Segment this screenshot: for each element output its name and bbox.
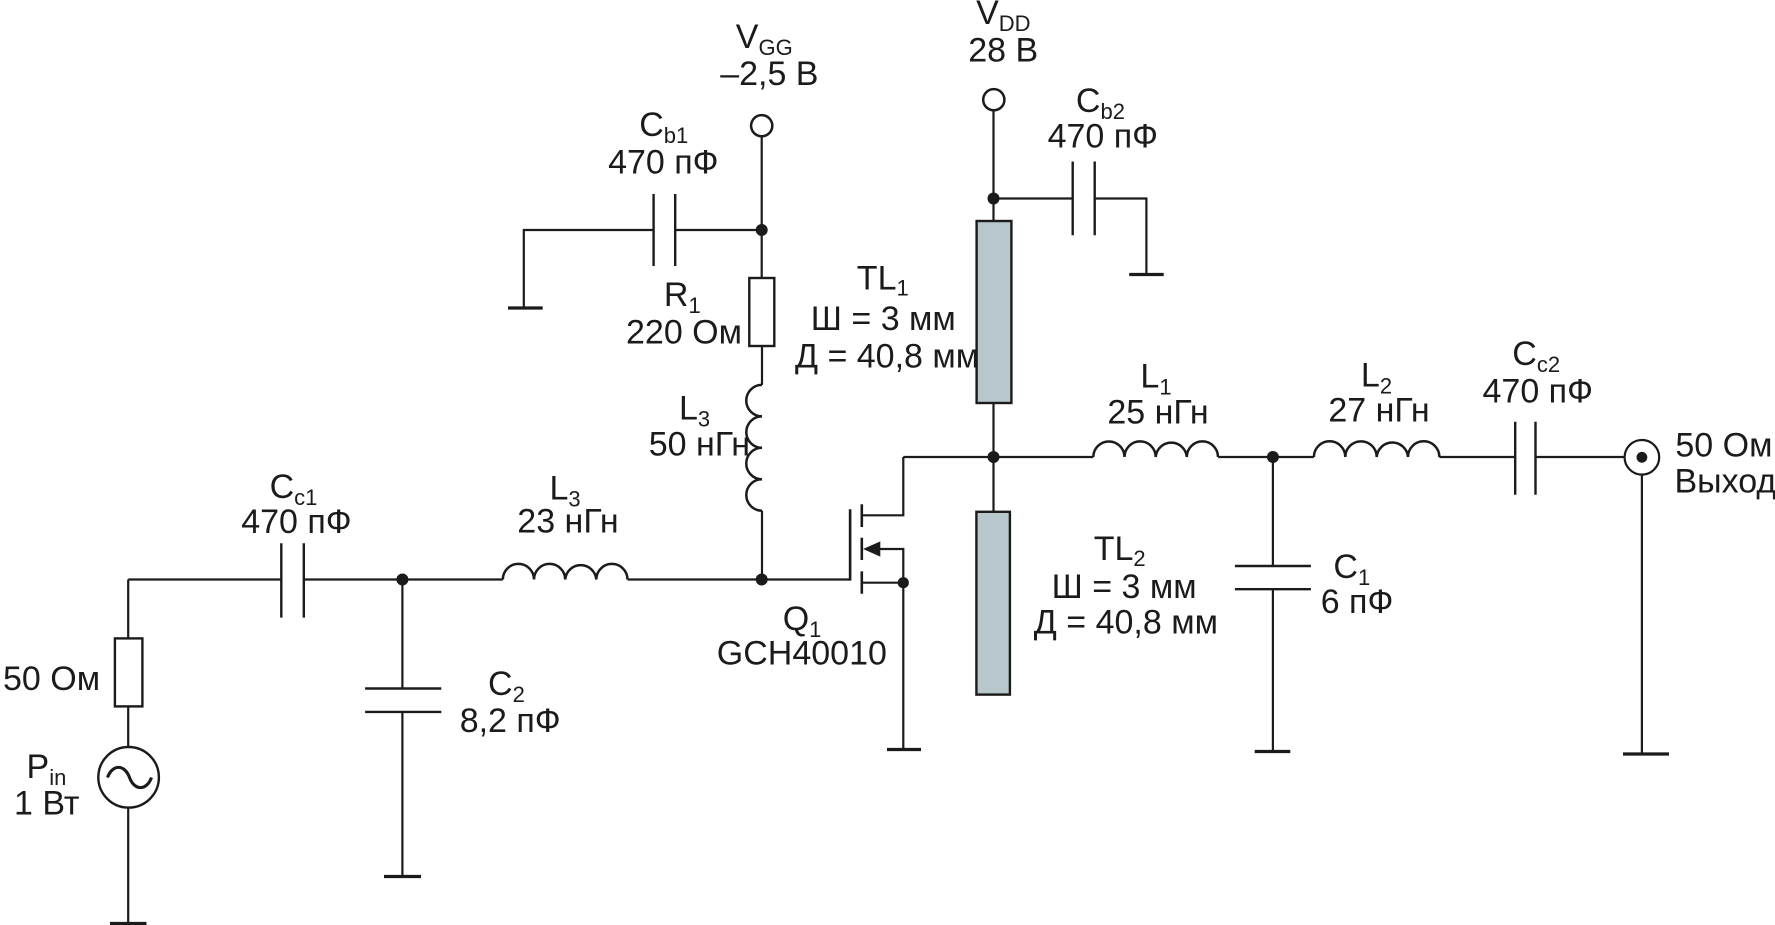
- transistor Q1 drain lead: [862, 457, 904, 515]
- wire input vertical: [127, 580, 129, 639]
- transistor Q1 channel segments: [860, 504, 863, 594]
- svg-text:TL1: TL1: [857, 259, 909, 300]
- wire source to ground: [902, 583, 904, 748]
- capacitor C2: [365, 687, 441, 689]
- ground (Q1 source): [887, 748, 921, 751]
- svg-text:Д = 40,8 мм: Д = 40,8 мм: [795, 338, 979, 376]
- svg-text:C2: C2: [488, 665, 525, 707]
- inductor L3 bias 50 нГн: [746, 385, 762, 511]
- node C junction: [1267, 451, 1279, 463]
- wire VDD node to terminal: [992, 110, 994, 198]
- node VDD junction: [988, 193, 1000, 205]
- wire TL1 to VDD node: [992, 199, 994, 222]
- svg-text:8,2 пФ: 8,2 пФ: [460, 702, 561, 740]
- inductor L1 25 нГн: [1093, 441, 1218, 457]
- wire VDD node to Cb2: [994, 197, 1073, 199]
- inductor L2 27 нГн: [1314, 441, 1440, 457]
- capacitor Cc1: [280, 543, 282, 617]
- ground (Cb1): [508, 306, 543, 309]
- wire bias node to Cb1: [675, 229, 762, 231]
- node A junction: [396, 574, 408, 586]
- svg-text:–2,5 В: –2,5 В: [720, 55, 818, 93]
- terminal VGG: [751, 115, 772, 136]
- wire source to ground: [127, 808, 129, 922]
- wire L1 to node C: [1218, 456, 1273, 458]
- terminal VDD: [983, 89, 1004, 110]
- svg-text:Cc2: Cc2: [1512, 335, 1560, 377]
- source Pin (AC source): [98, 747, 159, 808]
- transmission line TL1: [977, 221, 1012, 403]
- wire bias node to VGG terminal: [761, 137, 763, 231]
- node gate junction: [756, 574, 768, 586]
- wire Cc2 to output terminal: [1536, 456, 1625, 458]
- ground (Cb2): [1129, 273, 1164, 276]
- wire node A to L3 series: [402, 578, 502, 580]
- transmission line TL2 (open stub): [976, 512, 1010, 695]
- wire L2 to Cc2: [1439, 456, 1515, 458]
- svg-text:6 пФ: 6 пФ: [1321, 583, 1394, 621]
- svg-text:50 нГн: 50 нГн: [649, 426, 750, 464]
- svg-text:1 Вт: 1 Вт: [14, 785, 79, 823]
- transistor Q1 gate bar: [849, 509, 852, 580]
- transistor Q1 source lead: [862, 582, 904, 584]
- node bias junction: [756, 224, 768, 236]
- wire R1 to bias node: [761, 230, 763, 278]
- svg-text:Ш = 3 мм: Ш = 3 мм: [811, 300, 956, 338]
- wire drain to node B: [903, 456, 993, 458]
- wire Cb2 to ground: [1095, 199, 1147, 274]
- ground (C2): [384, 875, 421, 878]
- wire output to ground: [1641, 475, 1643, 753]
- resistor 50 Ом (source impedance): [115, 638, 142, 706]
- terminal output connector: [1625, 440, 1660, 475]
- wire node B down to TL2: [992, 457, 994, 512]
- wire L3 to gate node: [628, 578, 762, 580]
- wire Cc1 to node A: [304, 578, 403, 580]
- wire node A down to C2: [401, 580, 403, 689]
- wire gate node to Q1 gate: [762, 578, 850, 580]
- svg-text:VGG: VGG: [736, 18, 793, 60]
- svg-text:25 нГн: 25 нГн: [1107, 394, 1208, 432]
- node source junction: [898, 577, 909, 588]
- wire C1 to ground: [1272, 589, 1274, 750]
- ground (C1): [1255, 750, 1291, 753]
- wire gate node up to L3 bias: [761, 511, 763, 580]
- capacitor Cc2: [1514, 422, 1516, 495]
- wire node C to L2: [1273, 456, 1314, 458]
- wire L3 bias to R1: [761, 346, 763, 385]
- wire C2 to ground: [401, 712, 403, 875]
- capacitor Cb1: [674, 194, 676, 266]
- inductor L3 series 23 нГн: [503, 564, 628, 580]
- svg-text:50 Ом: 50 Ом: [1675, 427, 1772, 465]
- resistor R1: [749, 278, 774, 346]
- capacitor C1: [1235, 565, 1311, 567]
- transistor Q1 body arrow: [879, 549, 903, 583]
- svg-text:470 пФ: 470 пФ: [241, 503, 351, 541]
- svg-text:TL2: TL2: [1094, 530, 1146, 571]
- svg-text:27 нГн: 27 нГн: [1328, 392, 1429, 430]
- svg-text:470 пФ: 470 пФ: [608, 143, 718, 181]
- svg-text:GCH40010: GCH40010: [717, 635, 887, 673]
- svg-text:Д = 40,8 мм: Д = 40,8 мм: [1034, 604, 1218, 642]
- svg-text:470 пФ: 470 пФ: [1048, 118, 1158, 156]
- wire resistor to source: [127, 706, 129, 747]
- svg-text:470 пФ: 470 пФ: [1483, 373, 1593, 411]
- svg-text:Ш = 3 мм: Ш = 3 мм: [1052, 568, 1197, 606]
- wire node B to L1: [994, 456, 1094, 458]
- svg-text:R1: R1: [664, 276, 701, 318]
- svg-text:220 Ом: 220 Ом: [626, 314, 742, 352]
- wire input horizontal: [128, 578, 281, 580]
- wire node C down to C1: [1272, 457, 1274, 566]
- svg-text:Выход: Выход: [1675, 463, 1775, 501]
- svg-text:28 В: 28 В: [968, 32, 1038, 70]
- ground (input): [110, 922, 147, 925]
- ground (output): [1623, 752, 1669, 755]
- svg-text:23 нГн: 23 нГн: [517, 503, 618, 541]
- svg-text:50 Ом: 50 Ом: [3, 660, 100, 698]
- capacitor Cb2: [1071, 162, 1073, 236]
- svg-text:Cb1: Cb1: [639, 106, 688, 148]
- node B junction: [988, 451, 1000, 463]
- wire node B up to TL1: [992, 403, 994, 457]
- wire Cb1 to ground: [524, 230, 654, 307]
